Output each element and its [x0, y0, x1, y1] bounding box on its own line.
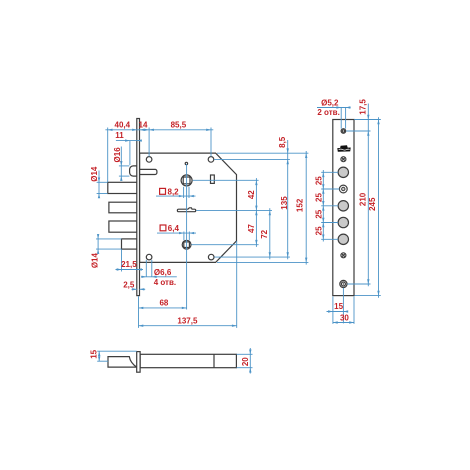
dim diam16 latch — [120, 147, 122, 181]
dim 17,5 / 210 right — [354, 119, 381, 121]
dim square 8,2 — [183, 187, 185, 198]
dim diam14 upper bolt — [98, 171, 100, 198]
svg-text:Ø14: Ø14 — [90, 252, 99, 268]
svg-text:15: 15 — [90, 349, 99, 358]
bolt 4 short — [122, 239, 138, 249]
dim 245 — [355, 295, 381, 297]
spindle square 8.2 — [183, 177, 190, 184]
svg-text:8,2: 8,2 — [168, 187, 180, 196]
dim 8,5 / 135 — [287, 140, 289, 259]
spindle circle — [181, 175, 192, 186]
svg-text:245: 245 — [368, 197, 377, 211]
dim 40,4 / 14 / 85,5 top line — [105, 129, 213, 131]
bolt hole 3 — [338, 217, 348, 227]
dim 2,5 plate thickness — [132, 288, 137, 290]
svg-text:15: 15 — [334, 302, 343, 311]
key lever — [177, 208, 195, 212]
svg-text:25: 25 — [314, 209, 323, 218]
svg-text:135: 135 — [280, 196, 289, 210]
corner hole top-right — [208, 157, 214, 163]
extension row: bottom holes — [214, 256, 290, 258]
corner hole top-left — [146, 157, 152, 163]
svg-text:30: 30 — [340, 313, 349, 322]
svg-text:11: 11 — [115, 131, 124, 140]
dim 11 — [116, 140, 142, 142]
svg-text:40,4: 40,4 — [115, 120, 131, 129]
faceplate outline — [333, 120, 354, 296]
dim 15 side — [97, 350, 137, 352]
corner hole bottom-left — [146, 254, 152, 260]
bolt hole 4 — [338, 234, 348, 244]
dim square 6,4 — [183, 232, 185, 241]
extension row: lever — [197, 209, 273, 211]
phillips hole bottom — [341, 253, 346, 258]
svg-text:25: 25 — [314, 193, 323, 202]
bolt hole 2 — [338, 201, 348, 211]
svg-text:68: 68 — [159, 299, 168, 308]
corner hole bottom-right — [208, 254, 214, 260]
svg-text:Ø16: Ø16 — [113, 147, 122, 163]
svg-text:14: 14 — [139, 120, 148, 129]
dim 68 — [138, 296, 140, 328]
svg-text:85,5: 85,5 — [171, 120, 187, 129]
dim 21,5 — [116, 269, 144, 271]
small pin hole — [185, 162, 187, 164]
bottom screw hole — [340, 280, 347, 287]
plate side — [137, 352, 140, 373]
svg-text:20: 20 — [241, 357, 250, 366]
dim 72 — [269, 208, 271, 259]
svg-text:2,5: 2,5 — [123, 281, 135, 290]
svg-text:8,5: 8,5 — [278, 136, 287, 148]
svg-text:25: 25 — [314, 226, 323, 235]
dim diam14 lower bolt — [97, 234, 99, 254]
svg-text:Ø14: Ø14 — [90, 166, 99, 182]
dim 137,5 — [236, 241, 238, 328]
svg-text:42: 42 — [247, 190, 256, 199]
dim 15 / 30 bottom — [342, 288, 344, 324]
svg-text:4 отв.: 4 отв. — [154, 278, 176, 287]
latch bar inside body — [140, 169, 157, 174]
faceplate edge-on — [137, 119, 140, 296]
svg-text:2 отв.: 2 отв. — [317, 108, 339, 117]
svg-text:137,5: 137,5 — [177, 316, 198, 325]
extension row: spindle — [193, 179, 259, 181]
extension row: body bottom — [217, 261, 308, 263]
svg-text:152: 152 — [296, 198, 305, 212]
extension row: cylinder square — [192, 244, 259, 246]
phillips hole top — [341, 157, 346, 162]
svg-text:6,4: 6,4 — [168, 224, 180, 233]
slot — [211, 175, 215, 183]
logo — [337, 145, 350, 152]
bar divider — [213, 354, 215, 367]
svg-text:21,5: 21,5 — [121, 260, 137, 269]
ring hole — [339, 185, 347, 193]
svg-text:Ø6,6: Ø6,6 — [154, 268, 172, 277]
bolt 1 — [108, 182, 137, 193]
dim diam5,2 2 holes — [317, 107, 351, 109]
dim diam6,6 4 holes — [145, 260, 147, 277]
svg-text:210: 210 — [359, 192, 368, 206]
svg-text:25: 25 — [314, 176, 323, 185]
centerline through spindle — [186, 164, 188, 310]
svg-text:47: 47 — [247, 224, 256, 233]
top screw hole — [341, 129, 346, 134]
dim 25 x4 left — [321, 171, 338, 173]
svg-text:17,5: 17,5 — [359, 99, 368, 115]
dim 20 side — [237, 353, 253, 355]
body outline — [140, 153, 237, 262]
bolt 2 — [109, 202, 137, 213]
dim 42 / 47 — [255, 178, 257, 247]
cylinder square 6.4 — [184, 242, 190, 248]
extension row: top holes — [214, 158, 290, 160]
dim 152 — [305, 151, 307, 265]
latch head — [130, 166, 137, 176]
extension row: body top — [217, 152, 308, 154]
cylinder circle — [182, 240, 191, 249]
svg-text:72: 72 — [260, 229, 269, 238]
body bar side — [140, 354, 236, 367]
svg-text:Ø5,2: Ø5,2 — [321, 99, 339, 108]
latch side — [108, 357, 137, 368]
bolt 3 — [109, 221, 137, 232]
bolt hole 1 — [338, 167, 348, 177]
